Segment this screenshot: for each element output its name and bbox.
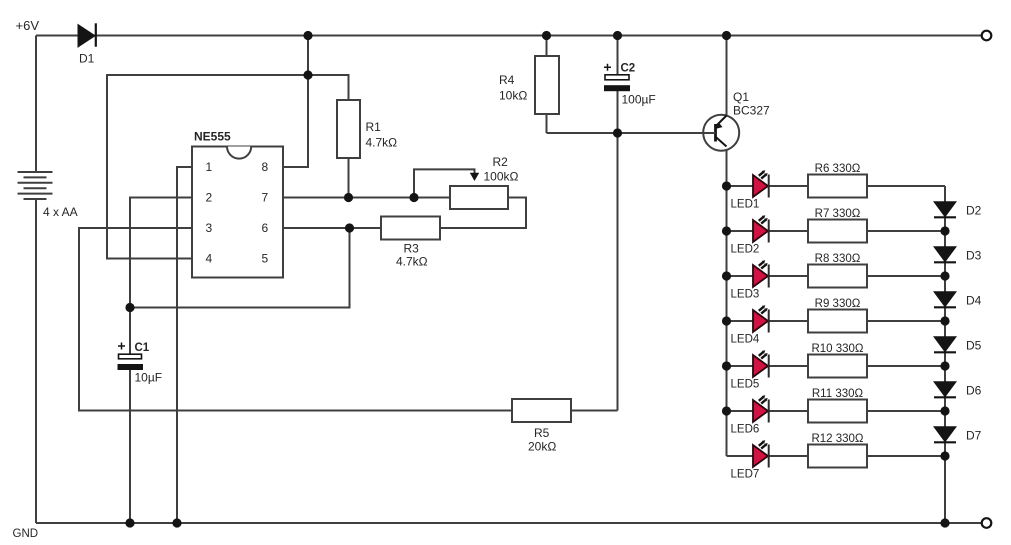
svg-text:100µF: 100µF: [622, 93, 656, 107]
svg-text:1: 1: [206, 160, 213, 174]
svg-text:8: 8: [262, 160, 269, 174]
svg-text:R11 330Ω: R11 330Ω: [812, 388, 864, 400]
svg-text:R4: R4: [499, 73, 515, 87]
svg-text:BC327: BC327: [733, 104, 770, 118]
svg-text:LED1: LED1: [731, 199, 760, 211]
svg-text:R5: R5: [534, 426, 550, 440]
svg-text:D7: D7: [966, 429, 982, 443]
svg-text:R7 330Ω: R7 330Ω: [815, 208, 861, 220]
svg-text:R12 330Ω: R12 330Ω: [811, 433, 863, 445]
svg-text:R6 330Ω: R6 330Ω: [815, 163, 861, 175]
svg-text:D3: D3: [966, 249, 982, 263]
svg-text:NE555: NE555: [194, 130, 231, 144]
svg-text:100kΩ: 100kΩ: [484, 170, 519, 184]
svg-text:4.7kΩ: 4.7kΩ: [396, 255, 428, 269]
svg-text:5: 5: [262, 252, 269, 266]
svg-text:R9 330Ω: R9 330Ω: [815, 298, 861, 310]
svg-text:R8 330Ω: R8 330Ω: [815, 253, 861, 265]
svg-text:D5: D5: [966, 339, 982, 353]
svg-text:D2: D2: [966, 204, 982, 218]
svg-text:7: 7: [262, 191, 269, 205]
svg-text:+6V: +6V: [16, 18, 40, 33]
svg-text:3: 3: [206, 221, 213, 235]
svg-text:D4: D4: [966, 294, 982, 308]
svg-text:LED2: LED2: [731, 244, 760, 256]
svg-text:R10 330Ω: R10 330Ω: [811, 343, 863, 355]
svg-text:LED7: LED7: [731, 469, 760, 481]
svg-text:LED4: LED4: [731, 334, 760, 346]
svg-text:2: 2: [206, 191, 213, 205]
svg-text:6: 6: [262, 221, 269, 235]
svg-text:C2: C2: [621, 63, 636, 75]
svg-text:C1: C1: [135, 342, 150, 354]
svg-text:R1: R1: [366, 120, 382, 134]
svg-text:LED6: LED6: [731, 424, 760, 436]
svg-text:D1: D1: [79, 52, 95, 66]
svg-text:D6: D6: [966, 384, 982, 398]
svg-text:R2: R2: [493, 155, 509, 169]
svg-text:4.7kΩ: 4.7kΩ: [366, 136, 398, 150]
svg-text:R3: R3: [404, 242, 420, 256]
svg-text:4: 4: [206, 252, 213, 266]
svg-text:20kΩ: 20kΩ: [528, 440, 556, 454]
svg-text:10µF: 10µF: [135, 371, 163, 385]
svg-text:LED5: LED5: [731, 379, 760, 391]
svg-text:10kΩ: 10kΩ: [499, 89, 527, 103]
svg-text:GND: GND: [13, 528, 39, 540]
svg-text:LED3: LED3: [731, 289, 760, 301]
svg-text:4 x AA: 4 x AA: [43, 205, 78, 219]
svg-text:Q1: Q1: [733, 90, 749, 104]
